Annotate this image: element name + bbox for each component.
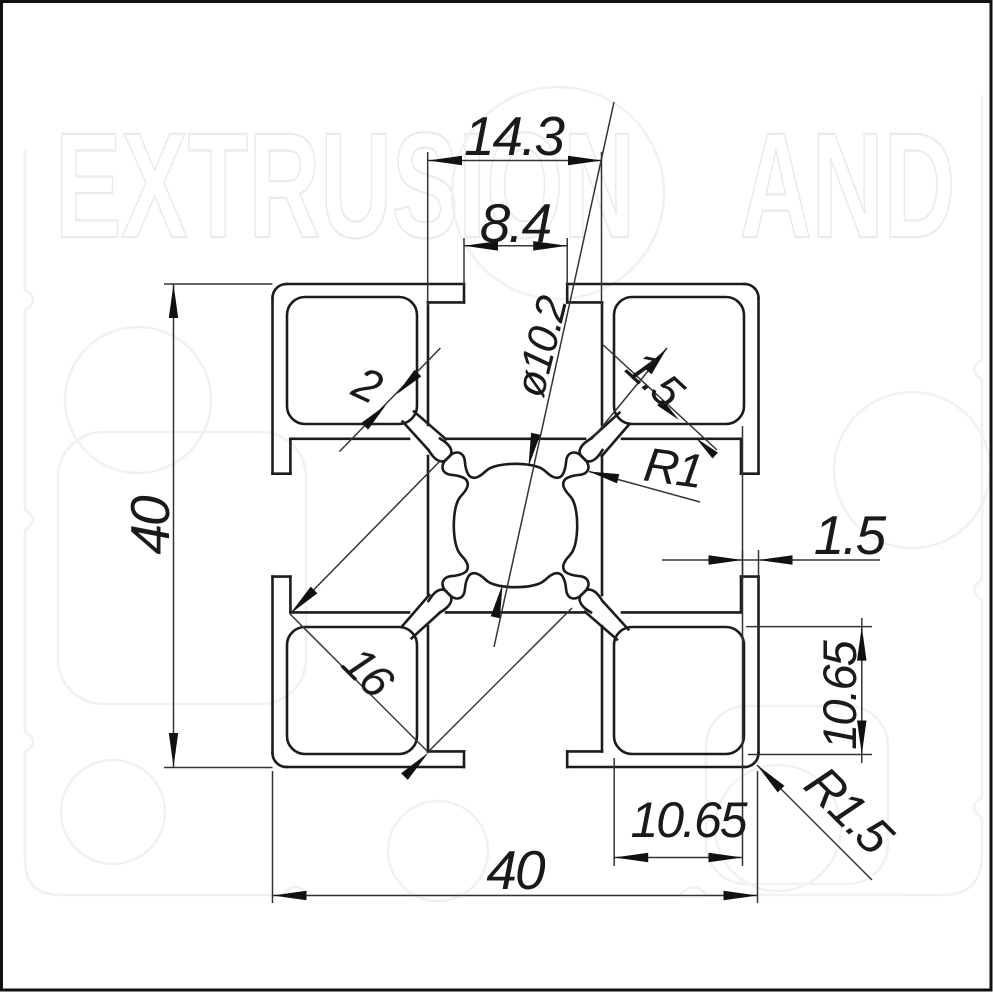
dim 40 bottom extension lines [272,771,274,903]
dim 8.4 extension lines [463,238,465,286]
web channel top-right walls [602,424,630,456]
arrows 10.65 bottom [614,853,648,862]
svg-text:2: 2 [344,356,390,414]
watermark: light gray outline text EXTRUSION AND [55,101,955,268]
dim 10.65 right line [861,618,863,763]
arrows 10.65 right [857,627,867,661]
arrow leader R1.5 [757,765,784,792]
arrows 1.5 right (outside, pointing inward) [709,555,743,565]
dim 14.3 extension lines [427,152,429,306]
bottom slot cavity side walls [427,626,430,751]
watermark: faint background profile shapes [25,87,990,901]
arrows 2 (outside web, pointing inward) [397,370,422,395]
svg-text:14.3: 14.3 [464,105,565,167]
corner cavity box bottom-left [287,627,417,754]
svg-text:10.65: 10.65 [630,792,747,848]
svg-text:ø10.2: ø10.2 [506,291,577,402]
dim 40 left extension lines [164,283,273,285]
dim dia 10.2 line [494,102,614,647]
dim 16 line [290,614,429,753]
dim 1.5 right extension lines [758,550,760,577]
dim 40 left line [173,284,175,767]
center hub outline top side [429,450,603,478]
left slot floor [427,456,430,595]
leader R1 [589,472,700,503]
bottom T-slot mouth walls and lips [463,751,466,767]
horizontal web line y1 (top slot floor / side slot top walls) [290,437,409,440]
arrows 8.4 [464,241,498,251]
svg-text:16: 16 [333,636,405,708]
web channel bottom-right walls [585,612,617,640]
svg-text:10.65: 10.65 [813,639,866,749]
arrows 14.3 [428,156,462,165]
arrows dia 10.2 (outside circle, pointing inward) [528,433,540,467]
svg-text:AND: AND [740,101,955,268]
watermark: giant profile outline edges [25,150,60,895]
right T-slot mouth lips [741,472,759,475]
arrows 40 bottom [273,891,307,900]
dim 16 extension line B [430,608,572,750]
svg-text:1.5: 1.5 [616,341,694,419]
arrows 1.5 web [644,348,667,374]
svg-text:R1: R1 [641,439,705,499]
arrows 40 left [169,284,178,318]
dim 8.4 line [464,245,567,247]
top slot cavity side walls [427,302,430,425]
center hub outline bottom side [429,573,603,601]
dim 14.3 line [428,160,602,162]
corner cavity box bottom-right [614,627,744,754]
dim 10.65 bottom extension lines [613,758,615,866]
arrows 16 [290,587,317,614]
corner cavity box top-right [614,297,744,424]
svg-text:8.4: 8.4 [480,192,551,254]
svg-text:1.5: 1.5 [814,504,887,566]
corner cavity box top-left [287,297,417,424]
center hub outline right side [563,439,591,613]
svg-text:40: 40 [119,495,181,555]
web channel bottom-left walls [402,595,430,627]
dim 16 extension line A [290,460,441,614]
arrow leader R1 [589,472,619,484]
left T-slot mouth lips [273,472,291,475]
right slot floor [601,456,604,595]
top T-slot mouth walls and lips [463,284,466,302]
dim 1.5 right line [662,559,880,561]
dim 10.65 bottom line [614,857,742,859]
dim 10.65 right extension lines [746,626,872,628]
profile outer face with slot mouths and rounded corners [287,283,465,286]
horizontal web line y2 (bottom slot floor / side slot bottom walls) [290,611,409,614]
dim 40 bottom line [273,895,758,897]
center hub outline left side [440,439,468,613]
dim 1.5 web line lower [601,343,717,450]
dim 1.5 web line upper [592,348,667,439]
leader R1.5 [757,765,872,880]
svg-text:40: 40 [486,839,546,901]
web channel top-left walls [414,412,446,440]
dim 2 line [339,348,440,452]
